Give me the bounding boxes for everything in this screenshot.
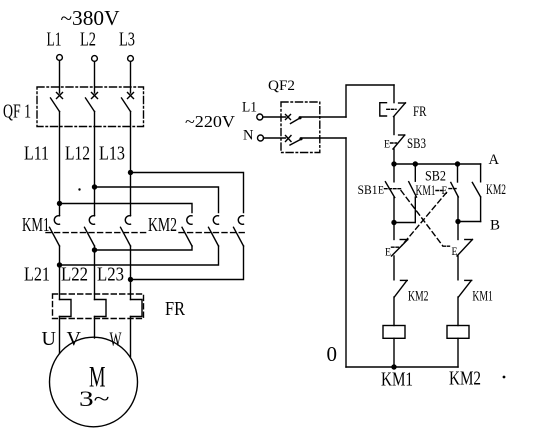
feed wire L3 to KM2 pole3: [131, 173, 244, 213]
svg-text:L12: L12: [65, 143, 90, 165]
NC contact of SB2 (left branch): [385, 223, 408, 280]
svg-text:L11: L11: [24, 143, 49, 165]
KM2 main pole 1: [182, 216, 192, 246]
svg-text:E: E: [385, 244, 391, 258]
KM1 main pole 2: [85, 216, 95, 246]
thermal relay FR box: [53, 294, 144, 319]
QF1 pole 1: [51, 93, 63, 112]
NC contact of SB1 (right branch): [443, 222, 472, 280]
svg-text:KM1: KM1: [381, 369, 413, 390]
wire L1 to QF1: [59, 61, 61, 94]
node KM1 branch: [413, 161, 418, 166]
wire U: [59, 317, 61, 354]
wire L12: [94, 112, 96, 216]
node L3 feed: [128, 170, 133, 175]
svg-text:SB1: SB1: [358, 182, 378, 197]
svg-text:KM1: KM1: [472, 288, 493, 304]
motor M circle: [50, 337, 138, 427]
node after SB3: [391, 161, 396, 166]
interlock dashed diagonal SB2 to left: [402, 193, 447, 246]
svg-text:L3: L3: [119, 29, 135, 51]
wire top of control: [346, 85, 394, 117]
FR NC contact (control): [380, 85, 427, 120]
wire L2 to QF1: [94, 62, 96, 94]
QF1 pole 2: [86, 93, 98, 112]
FR heater 3: [131, 300, 143, 317]
wire L22: [94, 246, 96, 300]
terminal L1 (control): [242, 100, 263, 121]
svg-text:~220V: ~220V: [185, 112, 236, 131]
left rail wire: [345, 138, 347, 367]
node L23: [128, 277, 133, 282]
terminal L2: [80, 29, 97, 62]
aux contact KM2: [458, 164, 506, 222]
node L21: [57, 262, 62, 267]
feed wire L2 to KM2 pole2: [95, 187, 219, 213]
svg-text:FR: FR: [165, 298, 186, 320]
wire KM2 pole3 to L23: [131, 246, 244, 280]
wire W: [130, 317, 132, 357]
svg-text:KM2: KM2: [408, 288, 429, 304]
svg-text:E: E: [452, 244, 458, 258]
terminal L1: [47, 29, 63, 61]
crossover KM2 pole1 to L22: [95, 246, 193, 250]
node L1 feed: [57, 201, 62, 206]
coil KM2: [447, 326, 481, 390]
svg-text:E: E: [378, 183, 384, 197]
bottom rail: [346, 366, 458, 368]
wire L13: [130, 112, 132, 216]
stray dot right: [503, 376, 506, 379]
svg-text:3~: 3~: [79, 386, 110, 411]
svg-text:SB2: SB2: [425, 168, 446, 184]
node coil KM1: [391, 364, 396, 369]
svg-text:N: N: [243, 128, 254, 144]
feed wire L1 to KM2 pole1: [60, 204, 193, 213]
stray dot left: [78, 188, 80, 190]
svg-text:L22: L22: [61, 264, 88, 286]
KM1 linkage dashes: [46, 232, 149, 234]
svg-text:KM2: KM2: [486, 182, 506, 198]
svg-text:~380V: ~380V: [61, 6, 120, 30]
circuit breaker QF1 box: [37, 87, 144, 127]
interlock NC contact KM1 (right): [458, 280, 493, 325]
node L22: [92, 247, 97, 252]
svg-text:SB3: SB3: [407, 136, 426, 152]
node right mid: [455, 219, 460, 224]
start button SB1: [358, 164, 401, 223]
FR heater 1: [60, 300, 72, 317]
QF1 pole 3: [122, 93, 134, 112]
svg-text:FR: FR: [413, 104, 427, 120]
node left mid: [391, 220, 396, 225]
svg-text:0: 0: [327, 342, 338, 366]
interlock NC contact KM2 (left): [394, 280, 429, 325]
wire row A: [394, 163, 481, 165]
svg-text:L13: L13: [99, 143, 125, 165]
wire FR to SB3: [393, 117, 395, 135]
svg-text:E: E: [384, 136, 390, 150]
wire L21: [59, 246, 61, 300]
KM2 main pole 2: [209, 216, 219, 246]
KM1 main pole 1: [50, 216, 60, 246]
aux contact KM1: [394, 164, 442, 223]
svg-text:QF2: QF2: [268, 78, 295, 94]
svg-text:L2: L2: [80, 29, 96, 51]
svg-text:L1: L1: [242, 100, 257, 116]
wire L3 to QF1: [130, 62, 132, 94]
FR heater 2: [95, 300, 107, 317]
node L2 feed: [92, 184, 97, 189]
interlock dashed diagonal SB1 to right: [401, 191, 443, 246]
wire L11: [59, 112, 61, 216]
svg-text:A: A: [489, 152, 500, 168]
svg-text:B: B: [490, 218, 500, 234]
svg-text:U: U: [42, 328, 57, 350]
terminal N: [243, 128, 264, 144]
crossover KM2 pole2 to L21: [60, 246, 219, 265]
terminal L3: [119, 29, 135, 62]
svg-text:L1: L1: [47, 29, 62, 51]
start button SB2: [425, 164, 458, 222]
QF2 pole L1: [263, 115, 346, 124]
KM2 main pole 3: [234, 216, 244, 246]
svg-text:QF 1: QF 1: [3, 101, 31, 123]
svg-text:L23: L23: [97, 264, 124, 286]
KM1 main pole 3: [121, 216, 131, 246]
wire L23: [130, 246, 132, 300]
stop button SB3: [384, 135, 426, 164]
node SB2 branch: [455, 161, 460, 166]
QF2 pole N: [264, 136, 347, 146]
svg-text:KM2: KM2: [449, 369, 481, 390]
breaker QF2 box: [281, 102, 320, 153]
svg-text:KM1: KM1: [416, 183, 436, 199]
coil KM1: [381, 326, 413, 391]
KM2 linkage dashes: [179, 232, 248, 234]
svg-text:KM2: KM2: [148, 214, 177, 236]
svg-text:W: W: [110, 329, 122, 351]
svg-text:L21: L21: [24, 264, 50, 286]
wire V: [94, 317, 96, 339]
